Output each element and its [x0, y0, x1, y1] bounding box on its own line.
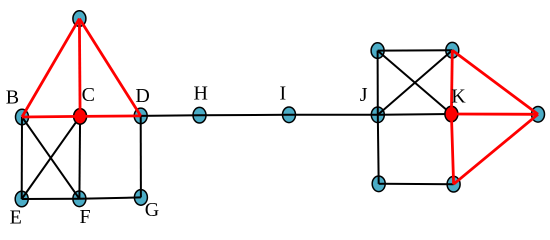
wire edge TL-TR [378, 49, 453, 51]
node G [134, 190, 147, 206]
node TR (unlabeled) [446, 42, 459, 58]
wire edge C-D (red) [80, 115, 141, 118]
wire edge B-F [22, 117, 79, 199]
wire edge TR-R (red) [452, 50, 538, 114]
wire edge TR-K (red) [450, 50, 454, 114]
svg-text:B: B [6, 87, 19, 109]
wire edge A-D (red) [79, 19, 140, 116]
svg-text:E: E [10, 207, 22, 229]
wire edge J-BL [377, 115, 380, 184]
node I [283, 107, 296, 123]
svg-text:K: K [451, 86, 466, 108]
wire edge C-E [22, 116, 80, 199]
wire edge C-F [78, 116, 81, 198]
node K (red) [445, 106, 458, 122]
wire edge B-E [21, 117, 23, 199]
svg-text:J: J [360, 84, 368, 106]
wire edge D-G [140, 116, 142, 197]
wire edge BR-R (red) [454, 114, 538, 184]
svg-text:I: I [280, 83, 287, 105]
node C (red) [74, 109, 87, 125]
wire edge F-G [79, 197, 140, 198]
wire edge A-C (red) [78, 19, 81, 117]
svg-text:G: G [145, 199, 159, 221]
wire edge K-BR (red) [451, 114, 453, 184]
wire edge BL-BR [379, 183, 454, 185]
node E [15, 191, 28, 207]
node B [16, 109, 29, 125]
node BL (unlabeled) [372, 176, 385, 192]
wire edge I-J [289, 114, 378, 116]
wire edge E-F [22, 198, 80, 200]
svg-text:D: D [135, 85, 149, 107]
wire edge TL-K [378, 51, 452, 114]
svg-text:H: H [194, 83, 208, 105]
node TL (unlabeled) [371, 43, 384, 59]
wire edge TL-J [377, 51, 379, 115]
node H [193, 107, 206, 123]
node R (far right, unlabeled) [532, 107, 545, 123]
wire edge D-H [141, 114, 200, 117]
node D [134, 108, 147, 124]
node BR (unlabeled) [447, 176, 460, 192]
wire edge TR-J [378, 50, 453, 115]
node J [371, 107, 384, 123]
wire edge A-B (red) [22, 19, 79, 117]
wire edge J-K [378, 113, 452, 116]
node A (apex, unlabeled) [73, 11, 86, 27]
wire edge K-R (red) [451, 113, 538, 116]
svg-text:C: C [82, 84, 95, 106]
wire edge H-I [200, 114, 290, 116]
wire edge B-C (red) [22, 115, 80, 118]
node F [73, 191, 86, 207]
svg-text:F: F [80, 206, 91, 228]
